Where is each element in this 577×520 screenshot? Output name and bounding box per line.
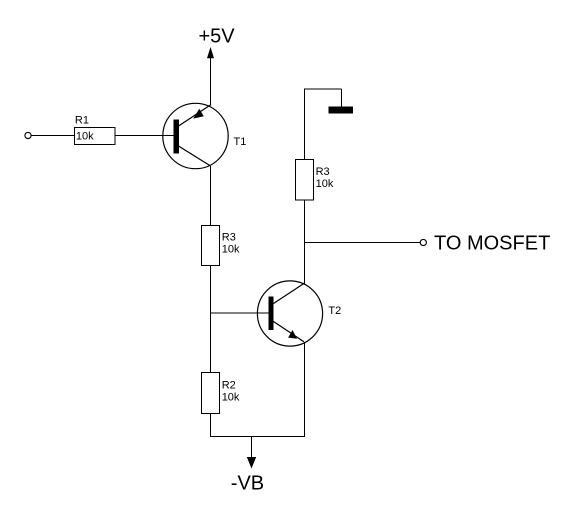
wire	[210, 414, 212, 437]
power -VB arrow	[251, 437, 253, 458]
svg-text:+5V: +5V	[199, 26, 236, 48]
svg-text:R3: R3	[222, 232, 236, 244]
wire	[304, 89, 306, 160]
resistor R3 (middle)	[202, 226, 220, 266]
svg-text:R1: R1	[75, 115, 89, 127]
resistor R1	[75, 128, 116, 145]
resistor R2	[202, 373, 220, 414]
svg-text:TO MOSFET: TO MOSFET	[434, 233, 550, 255]
output terminal	[420, 239, 426, 245]
wire	[115, 135, 176, 137]
supply rail bar	[329, 107, 354, 114]
transistor T1	[163, 103, 228, 168]
wire	[304, 342, 306, 437]
wire	[32, 135, 75, 137]
wire	[341, 89, 343, 107]
svg-text:10k: 10k	[316, 178, 334, 190]
svg-text:T2: T2	[328, 305, 341, 317]
wire	[210, 58, 212, 105]
input terminal	[25, 132, 31, 138]
svg-text:R2: R2	[222, 380, 236, 392]
power +5V arrow	[207, 47, 214, 58]
wire	[211, 312, 272, 314]
resistor R3 (right)	[296, 160, 314, 201]
wire	[210, 166, 212, 226]
svg-text:10k: 10k	[76, 131, 94, 143]
svg-text:R3: R3	[316, 166, 330, 178]
wire	[305, 242, 421, 244]
wire	[210, 266, 212, 373]
wire	[210, 436, 305, 438]
svg-text:T1: T1	[234, 136, 247, 148]
wire	[304, 88, 342, 90]
svg-text:10k: 10k	[222, 243, 240, 255]
svg-text:-VB: -VB	[231, 473, 264, 495]
transistor T2	[257, 281, 322, 346]
wire	[304, 200, 306, 283]
svg-text:10k: 10k	[222, 392, 240, 404]
